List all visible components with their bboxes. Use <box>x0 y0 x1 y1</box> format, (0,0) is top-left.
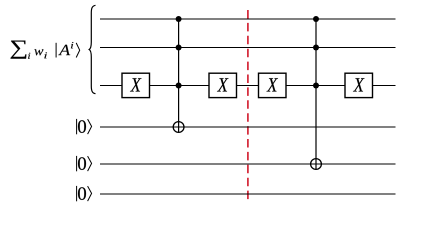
label sum_i w_i |A^i> <box>11 41 80 59</box>
ket |0> on q4 <box>77 156 92 171</box>
gate X1 box <box>122 73 150 97</box>
ket |0> on q3 <box>77 119 92 134</box>
ket |0> on q5 <box>77 186 92 201</box>
CNOT 2: control dot q2 <box>313 83 319 89</box>
wire q5 <box>100 193 396 195</box>
wire q2 <box>100 85 396 87</box>
CNOT 2: target on q4 <box>311 159 322 170</box>
gate X4 box <box>345 73 373 97</box>
wire q4 <box>100 163 396 165</box>
CNOT 2: control dot q0 <box>313 16 319 22</box>
barrier (red dashed) <box>247 10 249 203</box>
gate X2 box <box>209 73 237 97</box>
CNOT 2: control dot q1 <box>313 45 319 51</box>
CNOT 2: vertical link <box>315 19 317 170</box>
gate X3 box <box>259 73 287 97</box>
wire q3 <box>100 126 396 128</box>
CNOT 1: control dot q0 <box>176 16 182 22</box>
brace grouping top three wires <box>89 5 95 93</box>
CNOT 1: control dot q1 <box>176 45 182 51</box>
wire q1 <box>100 47 396 49</box>
CNOT 1: target on q3 <box>173 122 184 133</box>
CNOT 1: control dot q2 <box>176 83 182 89</box>
CNOT 1: vertical link <box>178 19 180 133</box>
wire q0 <box>100 18 396 20</box>
